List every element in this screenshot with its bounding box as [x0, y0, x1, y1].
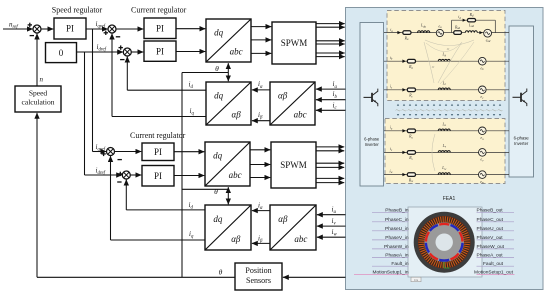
svg-text:Speed: Speed — [29, 89, 48, 98]
svg-text:αβ: αβ — [278, 214, 288, 224]
svg-text:Inverter: Inverter — [514, 141, 529, 146]
svg-text:6-phase: 6-phase — [514, 136, 530, 141]
svg-text:PI: PI — [154, 147, 162, 157]
svg-text:FEA1: FEA1 — [443, 196, 456, 202]
svg-text:θ: θ — [214, 187, 218, 196]
svg-text:PhaseV_out: PhaseV_out — [477, 235, 504, 241]
svg-text:abc: abc — [230, 46, 243, 56]
svg-text:PI: PI — [156, 46, 164, 56]
svg-text:Fault_out: Fault_out — [483, 261, 504, 267]
svg-text:SPWM: SPWM — [280, 160, 307, 170]
svg-text:abc: abc — [294, 234, 307, 244]
svg-text:PI: PI — [154, 171, 162, 181]
svg-text:abc: abc — [229, 170, 242, 180]
svg-text:6-phase: 6-phase — [364, 137, 380, 142]
svg-text:Position: Position — [245, 266, 271, 275]
svg-text:PI: PI — [66, 24, 74, 34]
svg-text:SPWM: SPWM — [281, 38, 308, 48]
svg-text:Fault_in: Fault_in — [391, 261, 408, 267]
svg-text:dq: dq — [213, 214, 223, 224]
svg-text:dq: dq — [213, 151, 223, 161]
svg-text:MotionSetup1_out: MotionSetup1_out — [474, 270, 514, 276]
svg-text:PhaseA_in: PhaseA_in — [385, 252, 409, 258]
svg-text:PhaseW_in: PhaseW_in — [384, 244, 409, 250]
svg-text:Speed regulator: Speed regulator — [52, 5, 103, 14]
svg-text:abc: abc — [294, 109, 307, 119]
svg-text:PhaseU_out: PhaseU_out — [477, 226, 504, 232]
svg-text:PhaseU_in: PhaseU_in — [385, 226, 409, 232]
svg-text:PhaseB_in: PhaseB_in — [385, 208, 409, 214]
svg-text:calculation: calculation — [22, 98, 55, 107]
svg-text:dq: dq — [214, 27, 224, 37]
svg-text:0: 0 — [59, 48, 64, 58]
svg-text:αβ: αβ — [278, 90, 288, 100]
svg-text:M: M — [446, 47, 450, 51]
svg-text:PhaseC_out: PhaseC_out — [477, 217, 504, 223]
svg-text:θ: θ — [219, 268, 223, 277]
svg-text:M: M — [431, 65, 435, 69]
svg-text:αβ: αβ — [232, 109, 242, 119]
svg-text:PhaseC_in: PhaseC_in — [385, 217, 409, 223]
svg-text:PhaseA_out: PhaseA_out — [477, 252, 504, 258]
svg-text:Current regulator: Current regulator — [131, 5, 187, 14]
svg-text:PhaseV_in: PhaseV_in — [385, 235, 409, 241]
svg-text:PhaseB_out: PhaseB_out — [477, 208, 504, 214]
svg-text:n: n — [40, 76, 44, 84]
svg-text:Sensors: Sensors — [246, 276, 271, 285]
svg-text:PhaseW_out: PhaseW_out — [477, 244, 505, 250]
svg-text:θ: θ — [215, 64, 219, 73]
svg-text:PI: PI — [156, 23, 164, 33]
svg-text:dq: dq — [214, 90, 224, 100]
svg-text:Current regulator: Current regulator — [130, 131, 186, 140]
svg-text:MotionSetup1_in: MotionSetup1_in — [372, 270, 408, 276]
svg-text:αβ: αβ — [231, 234, 241, 244]
svg-text:Crs: Crs — [414, 278, 419, 282]
svg-text:Inverter: Inverter — [365, 142, 380, 147]
